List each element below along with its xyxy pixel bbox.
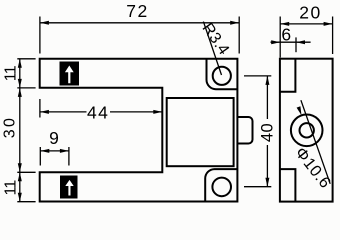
- dim 72 extension lines: [40, 17, 239, 54]
- bottom mounting hole: [212, 178, 231, 197]
- dim 6 tick: [295, 37, 297, 52]
- 9 arrows: [40, 149, 49, 153]
- side view outer circle: [291, 115, 323, 147]
- 30 arrows: [18, 88, 22, 97]
- leader R3.4: [203, 22, 221, 75]
- svg-text:40: 40: [259, 123, 277, 142]
- leader dia 10.6: [301, 100, 330, 184]
- svg-text:72: 72: [126, 1, 148, 21]
- arrowheads: [18, 21, 333, 202]
- dim 40 extension ticks: [244, 76, 271, 187]
- dim 44 line (broken for text): [40, 111, 162, 113]
- svg-text:6: 6: [281, 25, 292, 45]
- dim 20 extension lines: [280, 17, 332, 58]
- side view top step lines: [280, 59, 296, 92]
- 44 arrows: [40, 110, 49, 114]
- dimension lines: [17, 17, 332, 202]
- dia 10.6 leader arrow: [297, 106, 302, 115]
- dim 20 line: [280, 23, 332, 25]
- side view bottom step lines: [280, 169, 296, 202]
- 11 bottom arrows: [18, 172, 22, 181]
- side view outline: [280, 59, 333, 202]
- dim 9 ticks: [40, 147, 69, 166]
- svg-text:11: 11: [3, 180, 20, 196]
- svg-text:30: 30: [2, 116, 19, 138]
- 6 outside arrows: [271, 40, 280, 44]
- 72 arrows: [40, 21, 49, 25]
- dimension texts: [2, 1, 335, 196]
- svg-text:9: 9: [49, 128, 60, 148]
- top mounting lug with rounded corner: [207, 59, 238, 89]
- bottom mounting lug with rounded corner: [205, 169, 237, 201]
- 11 top arrows: [18, 59, 22, 68]
- 40 arrows: [265, 76, 269, 85]
- svg-text:44: 44: [87, 102, 109, 122]
- left dim ticks: [17, 59, 35, 202]
- inner window rectangle: [167, 98, 234, 166]
- receiver mark bottom (black with white up arrow): [60, 176, 78, 199]
- side view inner circle: [300, 123, 314, 137]
- 20 arrows: [280, 22, 289, 26]
- dim 6 line with outside tails: [271, 41, 311, 43]
- dim 9 line: [40, 150, 69, 152]
- svg-text:11: 11: [3, 65, 20, 81]
- emitter mark top (black with white up arrow): [60, 62, 80, 86]
- svg-text:20: 20: [299, 2, 321, 22]
- top mounting hole: [213, 67, 231, 85]
- connector bump on right edge: [237, 117, 252, 144]
- left vertical dim line (11/30/11): [19, 59, 21, 202]
- dim 44 extension line: [39, 99, 41, 118]
- dim 72 line: [40, 22, 239, 24]
- front view body outline (U-shaped slot sensor): [40, 59, 238, 202]
- dim 40 line (broken for text): [266, 76, 268, 187]
